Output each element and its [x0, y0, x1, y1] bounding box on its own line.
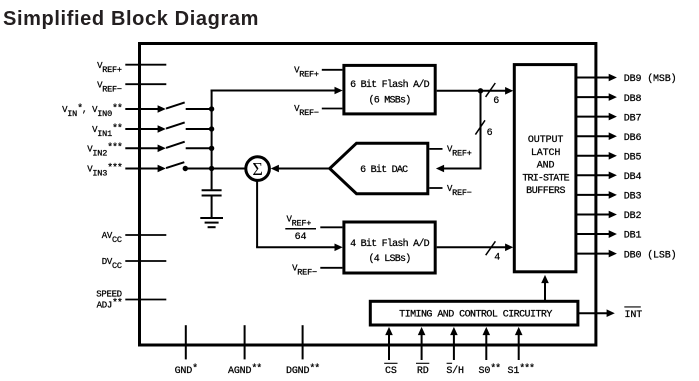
svg-text:(4 LSBs): (4 LSBs)	[368, 253, 410, 265]
svg-text:S/H: S/H	[446, 365, 464, 377]
wire VIN2 input	[125, 145, 166, 153]
wire junction down to DAC input	[436, 91, 482, 173]
pin VREF+/64 of 4-bit flash	[285, 214, 342, 243]
svg-text:DB9 (MSB): DB9 (MSB)	[624, 73, 677, 85]
svg-text:INT: INT	[625, 310, 643, 321]
pin GND (bottom)	[175, 325, 198, 377]
svg-text:Simplified Block Diagram: Simplified Block Diagram	[3, 8, 259, 30]
node junction VIN0/bus	[209, 106, 214, 111]
node junction VIN3/bus	[209, 166, 214, 171]
svg-text:4 Bit Flash A/D: 4 Bit Flash A/D	[350, 238, 430, 250]
svg-text:(6 MSBs): (6 MSBs)	[368, 94, 410, 106]
svg-text:S0**: S0**	[479, 363, 501, 377]
svg-text:BUFFERS: BUFFERS	[526, 186, 565, 197]
wire/pin RD input	[416, 327, 429, 377]
svg-text:TRI-STATE: TRI-STATE	[522, 173, 569, 184]
svg-text:AVCC: AVCC	[102, 231, 122, 245]
pin AGND (bottom)	[228, 325, 261, 377]
svg-text:DB4: DB4	[624, 172, 642, 183]
wire 4-bit flash output to latch	[437, 244, 514, 252]
wire/pin DB9 output	[576, 73, 676, 85]
wire/pin DB6 output	[576, 132, 642, 144]
pin VREF- of DAC	[429, 184, 472, 198]
wire bus to 6-bit flash input	[211, 87, 343, 95]
svg-text:GND*: GND*	[175, 363, 198, 377]
output latch and tri-state buffers block U4	[514, 65, 576, 272]
svg-text:DGND**: DGND**	[286, 363, 319, 377]
wire VIN3 input	[125, 165, 166, 173]
svg-text:6: 6	[487, 128, 493, 139]
switch S-VIN1 arm	[166, 122, 185, 128]
wire/pin DB1 output	[576, 230, 642, 242]
wire analog bus vertical	[211, 90, 213, 190]
svg-text:VREF+: VREF+	[97, 61, 122, 75]
svg-text:DB5: DB5	[624, 153, 642, 164]
timing and control circuitry block U5	[370, 301, 578, 325]
bus-width slash 6 (to latch)	[486, 83, 500, 107]
svg-text:Σ: Σ	[252, 159, 262, 179]
svg-text:DVCC: DVCC	[102, 257, 122, 271]
pin SPEED ADJ (left)	[96, 290, 166, 311]
svg-text:CS: CS	[385, 366, 397, 377]
svg-text:6 Bit DAC: 6 Bit DAC	[360, 164, 408, 176]
wire VIN1 input	[125, 125, 166, 133]
svg-text:VIN*, VIN0**: VIN*, VIN0**	[62, 103, 122, 119]
svg-text:DB1: DB1	[624, 231, 642, 242]
pin VREF- of 4-bit flash	[292, 263, 342, 277]
wire/pin S0 input	[479, 327, 501, 377]
wire/pin S1 input	[508, 327, 535, 377]
pin DGND (bottom)	[286, 325, 319, 377]
wire VIN3 contact to summer	[185, 168, 245, 170]
wire/pin INT output	[578, 307, 642, 321]
switch S-VIN0 arm	[166, 102, 185, 108]
wire/pin DB2 output	[576, 211, 642, 223]
wire VIN2 switch contact to bus	[186, 147, 212, 149]
svg-text:DB0 (LSB): DB0 (LSB)	[624, 249, 677, 261]
node junction VIN1/bus	[209, 126, 214, 131]
svg-text:DB8: DB8	[624, 94, 642, 105]
outer device boundary box	[140, 44, 596, 346]
wire/pin DB8 output	[576, 93, 642, 105]
svg-text:LATCH: LATCH	[531, 148, 561, 159]
wire/pin S/H input	[446, 327, 464, 377]
svg-text:6 Bit Flash A/D: 6 Bit Flash A/D	[350, 79, 430, 91]
wire VIN1 switch contact to bus	[186, 128, 212, 130]
svg-text:VIN1**: VIN1**	[92, 123, 122, 139]
svg-text:RD: RD	[417, 366, 429, 377]
pin VREF- of 6-bit flash	[294, 104, 342, 118]
wire VIN0 switch contact to bus	[186, 108, 212, 110]
summing node (sigma)	[246, 157, 270, 181]
wire/pin DB0 output	[576, 249, 676, 261]
node junction VIN2/bus	[209, 146, 214, 151]
pin DVCC (left)	[102, 257, 167, 271]
pin VREF+ of 6-bit flash	[294, 65, 342, 79]
wire DAC output into summer	[271, 165, 330, 173]
svg-text:6: 6	[493, 96, 499, 107]
svg-text:AGND**: AGND**	[228, 363, 261, 377]
wire/pin DB3 output	[576, 191, 642, 203]
svg-text:DB2: DB2	[624, 211, 642, 222]
4-bit flash A/D block U3	[344, 222, 435, 273]
pin AVCC (left)	[102, 231, 167, 245]
switch S-VIN2 arm	[166, 142, 185, 148]
node VIN3 switch contact dot	[183, 166, 188, 171]
wire VIN0 input	[125, 105, 166, 113]
pin VREF+ (left)	[97, 61, 166, 75]
svg-text:64: 64	[295, 232, 307, 243]
switch S-VIN3 arm	[166, 162, 184, 168]
svg-text:AND: AND	[537, 161, 555, 172]
node junction 6-bit output	[478, 88, 483, 93]
svg-text:DB3: DB3	[624, 192, 642, 203]
svg-text:S1***: S1***	[508, 363, 535, 377]
bus-width slash 4 (to latch)	[486, 241, 501, 263]
svg-text:VIN2***: VIN2***	[87, 142, 122, 158]
svg-text:VIN3***: VIN3***	[87, 162, 122, 178]
wire summer output down and to 4-bit flash	[256, 180, 343, 251]
svg-text:TIMING AND CONTROL CIRCUITRY: TIMING AND CONTROL CIRCUITRY	[399, 310, 552, 321]
svg-text:VREF−: VREF−	[97, 80, 122, 94]
capacitor C1	[202, 190, 222, 217]
pin VREF+ of DAC	[429, 145, 472, 159]
svg-text:4: 4	[494, 253, 500, 264]
svg-text:DB7: DB7	[624, 113, 642, 124]
wire 6-bit flash output to latch	[437, 87, 514, 95]
6-bit DAC U2	[330, 143, 428, 194]
bus-width slash 6 (to DAC)	[475, 120, 492, 139]
6-bit flash A/D block U1	[344, 65, 435, 114]
pin VREF- (left)	[97, 80, 166, 94]
wire/pin DB5 output	[576, 152, 642, 164]
wire timing to latch	[541, 275, 549, 301]
svg-text:DB6: DB6	[624, 133, 642, 144]
wire/pin DB4 output	[576, 172, 642, 184]
ground	[200, 218, 223, 227]
wire/pin DB7 output	[576, 113, 642, 125]
svg-text:OUTPUT: OUTPUT	[528, 135, 564, 146]
wire/pin CS input	[384, 327, 397, 377]
